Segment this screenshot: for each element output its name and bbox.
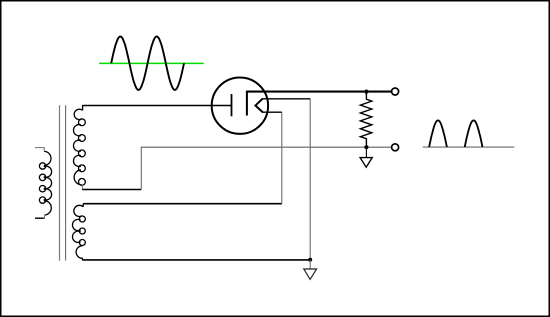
wire: top rail to resistor and terminal — [247, 91, 392, 93]
junction dot lower ground — [308, 258, 312, 262]
wire: lower coil top horizontal — [83, 203, 282, 205]
wire: center tap vertical gray — [140, 147, 142, 190]
tube plate bar — [231, 94, 233, 116]
transformer secondary lower winding — [72, 204, 85, 260]
output waveform humps — [429, 120, 482, 147]
transformer core line 2 — [65, 105, 67, 260]
output waveform baseline gray — [423, 146, 515, 148]
transformer secondary upper winding — [73, 106, 85, 186]
ground stub bottom — [309, 260, 311, 269]
transformer core line 1 — [59, 105, 61, 260]
transformer primary leads — [35, 147, 44, 149]
junction dot resistor top — [364, 90, 368, 94]
input waveform axis green line — [99, 62, 204, 64]
ground stub right — [365, 147, 367, 157]
tube cathode bar with top corner — [247, 92, 248, 116]
junction dot resistor bottom — [364, 145, 368, 149]
wire: vertical x310 gray — [309, 99, 311, 260]
transformer primary winding — [39, 151, 51, 215]
wire: output bottom rail gray — [141, 146, 392, 148]
ground symbol bottom — [304, 269, 317, 279]
secondary upper bottom step — [81, 185, 83, 190]
tube cathode arrow — [255, 99, 262, 112]
output terminal upper — [392, 88, 399, 95]
ground symbol right — [360, 158, 372, 168]
wire: upper coil bottom to center tap corner — [82, 189, 141, 191]
wire: arrow lower arm horizontal — [262, 111, 282, 113]
wire: secondary top to tube plate — [84, 105, 232, 107]
wire: lower coil bottom horizontal — [82, 259, 310, 261]
wire: arrow upper arm horizontal — [262, 98, 310, 100]
wire: vertical x282 gray — [281, 112, 283, 203]
tube envelope circle — [212, 78, 268, 134]
output terminal lower — [392, 144, 399, 151]
resistor — [360, 92, 371, 148]
input sine wave — [111, 37, 184, 90]
